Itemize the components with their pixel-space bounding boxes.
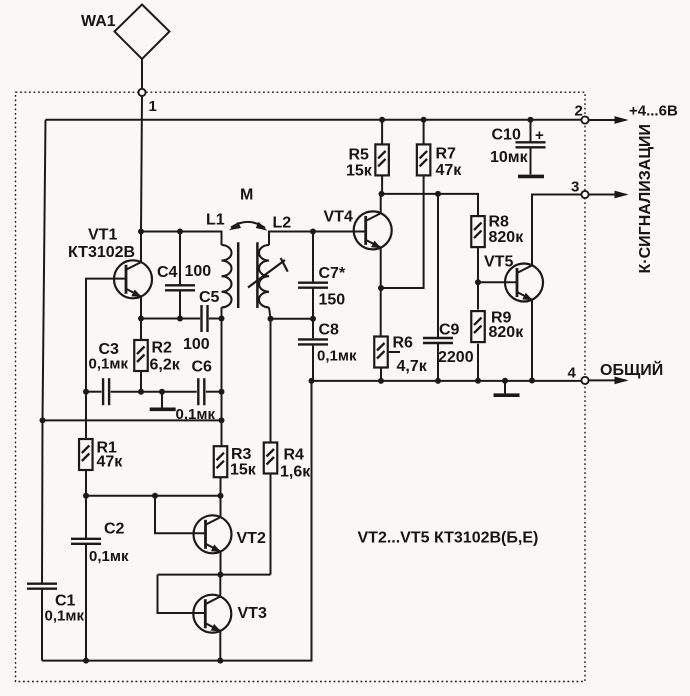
svg-text:VT2: VT2 <box>237 530 266 547</box>
wire C2 bottom to bottom rail <box>85 544 87 660</box>
svg-text:2: 2 <box>575 103 583 120</box>
wire base row y391 to C3 <box>86 391 102 393</box>
wire ground stub main <box>504 381 506 394</box>
inductor L1 <box>222 245 232 307</box>
svg-text:R6: R6 <box>393 335 414 352</box>
junction dots y231 row <box>138 229 144 235</box>
wire C9 bottom stub <box>437 344 439 381</box>
arrowhead output 3 <box>615 191 629 199</box>
node 3 terminal <box>581 191 588 198</box>
svg-text:15к: 15к <box>346 163 373 180</box>
transistor VT2 <box>194 515 232 553</box>
capacitor C10 polarized <box>516 142 546 147</box>
wire R4 bottom <box>270 474 272 575</box>
resistor R6 <box>374 337 388 368</box>
svg-text:R8: R8 <box>489 214 510 231</box>
svg-text:C9: C9 <box>439 322 460 339</box>
wire VT5 emitter <box>531 300 533 381</box>
wire C7 bottom stub <box>312 289 314 319</box>
svg-text:L2: L2 <box>273 215 292 232</box>
wire C5 to L1 bottom <box>209 318 222 320</box>
wire row y574 VT2e-VT3c-R4 <box>158 574 271 576</box>
capacitor C4 <box>165 285 195 290</box>
wire ground rail <box>312 380 582 382</box>
wire supply top rail <box>46 119 582 121</box>
svg-text:M: M <box>240 187 253 204</box>
capacitor C3 <box>103 378 109 405</box>
junction dots y318 row <box>138 316 144 322</box>
wire C8 bottom stub <box>312 346 314 381</box>
svg-text:КТ3102В: КТ3102В <box>68 244 135 261</box>
svg-text:1,6к: 1,6к <box>280 464 311 481</box>
svg-text:+: + <box>535 127 544 144</box>
coupling arrow M <box>231 222 265 228</box>
antenna WA1 <box>115 5 170 60</box>
transformer core bars <box>238 242 257 308</box>
svg-text:VT4: VT4 <box>324 209 353 226</box>
wire VT2 emitter <box>220 552 222 575</box>
wire left rail <box>42 120 46 584</box>
wire L2 bottom to R4 top <box>269 307 271 442</box>
svg-text:C4: C4 <box>157 264 178 281</box>
svg-text:3: 3 <box>571 179 579 196</box>
svg-text:820к: 820к <box>489 229 525 246</box>
wire R9 bottom stub <box>477 344 479 381</box>
wire R5 bottom stub <box>381 176 383 194</box>
transistor VT5 <box>505 264 543 302</box>
wire R6 label tick <box>389 351 400 353</box>
dashed enclosure border <box>16 92 586 681</box>
svg-text:0,1мк: 0,1мк <box>176 406 216 423</box>
variable inductance arrow <box>248 258 288 288</box>
svg-text:0,1мк: 0,1мк <box>89 356 129 373</box>
wire R1 bottom to C2 <box>85 470 87 539</box>
wire VT4 collector <box>380 194 382 213</box>
svg-text:C2: C2 <box>104 521 125 538</box>
svg-text:100: 100 <box>183 336 210 353</box>
svg-text:150: 150 <box>319 292 346 309</box>
svg-text:2200: 2200 <box>438 349 474 366</box>
node 2 terminal <box>581 116 588 123</box>
wire supply branch row y420 <box>43 419 222 421</box>
svg-text:+4...6В: +4...6В <box>629 103 678 120</box>
resistor R5 <box>375 144 389 175</box>
wire node1 to VT1 collector <box>141 96 142 262</box>
transistor VT4 <box>354 211 392 249</box>
svg-text:VT3: VT3 <box>238 605 267 622</box>
wire VT1 emitter <box>140 297 142 319</box>
wire R2 top stub <box>140 319 142 341</box>
wire VT4 emitter to R6 <box>380 248 382 336</box>
wire C6 to L1 column <box>206 391 222 393</box>
wire C10 bottom stub <box>530 148 532 174</box>
resistor R8 <box>471 216 485 247</box>
svg-text:WA1: WA1 <box>81 13 116 30</box>
svg-text:R3: R3 <box>231 446 252 463</box>
resistor R2 <box>134 340 148 371</box>
junction dots ground rail <box>309 378 315 384</box>
wire left rail below C1 <box>41 589 43 661</box>
capacitor C5 <box>202 305 208 332</box>
wire C8 top stub <box>312 319 314 338</box>
junction dot VT4 emitter R7 <box>378 285 384 291</box>
transistor VT3 <box>193 595 231 633</box>
svg-text:0,1мк: 0,1мк <box>45 608 85 625</box>
svg-text:L1: L1 <box>206 212 225 229</box>
svg-text:C5: C5 <box>199 289 220 306</box>
wire C9 top column <box>437 194 439 337</box>
arrowhead output 2 <box>615 116 629 124</box>
transistor VT1 <box>114 260 152 298</box>
wire R2 bottom stub <box>140 371 142 392</box>
svg-text:820к: 820к <box>489 324 525 341</box>
svg-text:ОБЩИЙ: ОБЩИЙ <box>600 360 663 379</box>
wire C7 top stub <box>312 232 314 282</box>
wire tank row y318 to C7C8 node <box>271 318 314 320</box>
wire C3 to R2 bottom node <box>111 391 197 393</box>
wire VT2 base detour <box>155 496 206 534</box>
svg-text:1: 1 <box>149 98 157 115</box>
junction dots y420 row <box>40 417 46 423</box>
wire R7 bottom to VT4 emitter <box>381 176 424 289</box>
wire VT5 collector to node 3 <box>532 195 581 266</box>
svg-text:C7*: C7* <box>319 265 346 282</box>
node 1 terminal <box>138 89 145 96</box>
svg-text:R5: R5 <box>349 147 370 164</box>
svg-text:4: 4 <box>568 365 577 382</box>
svg-text:6,2к: 6,2к <box>150 357 181 374</box>
svg-text:R7: R7 <box>436 146 457 163</box>
junction dots top rail <box>379 117 385 123</box>
capacitor C2 <box>71 539 101 544</box>
resistor R3 <box>214 446 228 477</box>
wire antenna lead <box>141 59 143 88</box>
ground symbol main rail <box>494 394 520 396</box>
wire VT3 collector <box>219 575 221 597</box>
svg-text:4,7к: 4,7к <box>397 358 428 375</box>
svg-text:VT5: VT5 <box>484 254 513 271</box>
svg-text:К·СИГНАЛИЗАЦИИ: К·СИГНАЛИЗАЦИИ <box>637 124 654 274</box>
svg-text:C10: C10 <box>492 127 521 144</box>
svg-text:VT2...VT5 КТ3102В(Б,Е): VT2...VT5 КТ3102В(Б,Е) <box>358 530 539 547</box>
wire ground stub at C6 row <box>161 392 163 408</box>
wire C4 bottom stub <box>179 291 181 318</box>
wire VT3 base detour <box>158 575 206 613</box>
coupling arrowhead left <box>229 222 241 231</box>
ground symbol at C10 <box>518 175 544 177</box>
wire collector row y231 to L1 <box>141 232 222 246</box>
wire collector node row y193 <box>382 194 479 216</box>
capacitor C6 <box>198 378 204 405</box>
wire VT3 emitter <box>219 631 221 661</box>
wire VT5 base <box>478 281 517 283</box>
wire bottom rail <box>42 381 312 661</box>
inductor L2 <box>259 245 269 307</box>
svg-text:15к: 15к <box>230 462 257 479</box>
svg-text:0,1мк: 0,1мк <box>89 548 129 565</box>
junction dots y391 row <box>83 389 89 395</box>
wire L2 top to VT4 base <box>269 232 366 246</box>
wire C10 top stub <box>530 120 532 142</box>
resistor R9 <box>471 311 485 342</box>
junction dots y193 row <box>379 191 385 197</box>
capacitor C7 <box>298 283 328 288</box>
svg-text:10мк: 10мк <box>490 149 529 166</box>
ground symbol at C6 row <box>150 408 176 410</box>
svg-text:47к: 47к <box>97 454 124 471</box>
wire output 4 <box>589 379 626 381</box>
wire R8 bottom / VT5 base node <box>477 247 479 309</box>
resistor R7 <box>417 144 431 175</box>
wire output 3 <box>589 194 626 196</box>
svg-text:100: 100 <box>185 263 212 280</box>
coupling arrowhead right <box>256 222 268 231</box>
svg-text:R4: R4 <box>284 447 305 464</box>
junction dots y495 row <box>83 493 89 499</box>
svg-text:R2: R2 <box>152 340 173 357</box>
wire bias row y495 <box>86 495 221 497</box>
capacitor C1 <box>27 584 57 589</box>
capacitor C9 <box>423 338 453 343</box>
resistor R4 <box>264 443 278 474</box>
svg-text:47к: 47к <box>436 162 463 179</box>
wire L1 bottom column down to R3 <box>221 307 223 446</box>
wire C4 top stub <box>179 232 181 285</box>
junction dots bottom rail <box>83 658 89 664</box>
node 4 terminal <box>581 377 588 384</box>
svg-text:C6: C6 <box>192 359 213 376</box>
svg-text:0,1мк: 0,1мк <box>317 348 357 365</box>
wire R6 bottom stub <box>380 368 382 381</box>
capacitor C8 <box>298 339 328 344</box>
wire output 2 <box>589 119 626 121</box>
svg-text:VT1: VT1 <box>88 227 117 244</box>
resistor R1 <box>79 439 93 470</box>
junction dot y574 row <box>217 572 223 578</box>
junction dot VT5 base node <box>475 279 481 285</box>
wire emitter row y318 to C5 <box>141 318 200 320</box>
wire VT1 base <box>86 279 126 439</box>
arrowhead output 4 <box>615 377 629 385</box>
wire R5 top stub <box>381 120 383 145</box>
wire R3 bottom / VT2 collector <box>220 478 222 518</box>
svg-text:C8: C8 <box>319 322 340 339</box>
wire R7 top stub <box>423 120 425 145</box>
